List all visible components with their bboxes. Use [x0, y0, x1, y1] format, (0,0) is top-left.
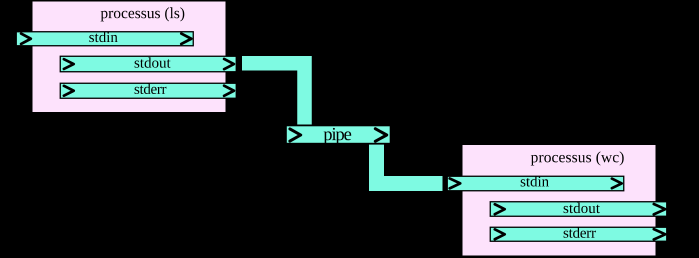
arrow stdout P2 right [654, 204, 666, 214]
arrow stdout P1 left [64, 59, 74, 69]
value stdin P1 [89, 32, 117, 42]
port stdout P1 [60, 56, 236, 72]
arrow stdin P1 right [181, 34, 191, 44]
label processus (ls) [101, 7, 185, 21]
value pipe [324, 128, 352, 144]
label processus (wc) [531, 151, 624, 165]
port stdin P1 [16, 32, 193, 46]
arrow stdout P1 right [224, 59, 234, 69]
value stdout P2 [564, 203, 600, 214]
wire pipe to stdin(wc) [377, 144, 443, 184]
arrow stderr P2 right [654, 229, 666, 239]
port stdout P2 [490, 202, 667, 217]
value stderr P1 [135, 84, 167, 95]
process box P1 (ls) [32, 1, 226, 113]
port stdin P2 [447, 176, 624, 191]
value stdout P1 [135, 57, 171, 67]
arrow stdout P2 left [495, 204, 505, 214]
arrow stdin P1 left [21, 34, 31, 44]
arrow stderr P2 left [495, 229, 505, 239]
arrow stderr P1 right [224, 86, 234, 96]
process box P2 (wc) [462, 145, 656, 257]
arrow stdin P2 right [612, 179, 622, 189]
arrow pipe right [375, 129, 386, 142]
port stderr P1 [60, 83, 236, 98]
arrow pipe left [290, 129, 301, 141]
value stderr P2 [564, 227, 596, 238]
arrow stderr P1 left [64, 86, 74, 96]
value stdin P2 [521, 176, 549, 187]
pipe element [286, 125, 391, 143]
port stderr P2 [490, 227, 667, 241]
wire stdout(ls) to pipe [242, 63, 305, 125]
arrow stdin P2 left [450, 178, 461, 188]
